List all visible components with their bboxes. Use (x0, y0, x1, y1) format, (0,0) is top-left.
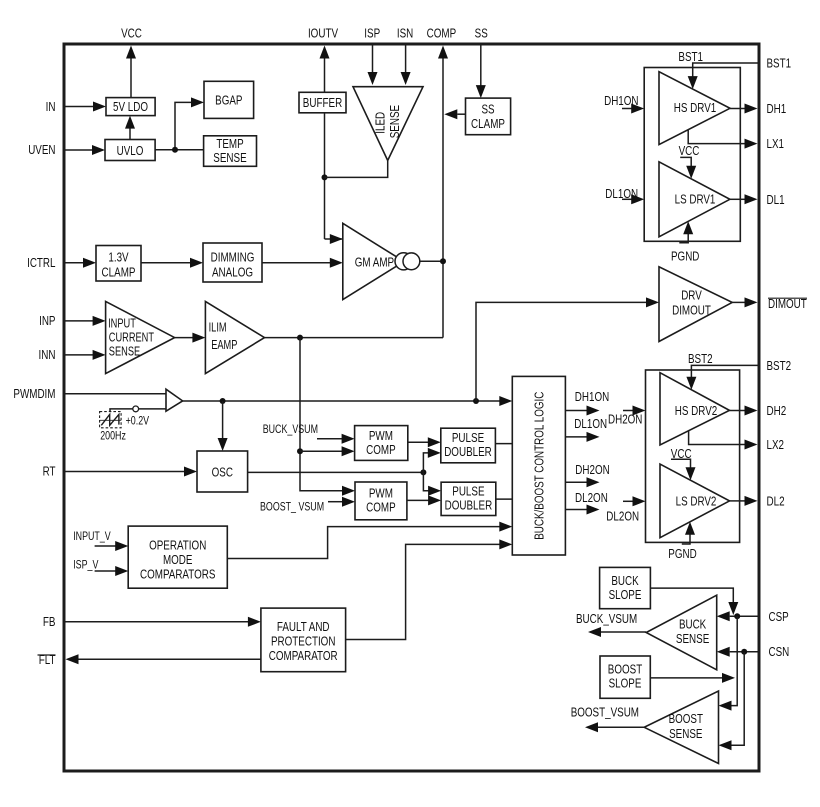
node OSC output junction (420, 469, 426, 475)
svg-text:IN: IN (46, 99, 56, 114)
svg-text:FLT: FLT (39, 652, 56, 667)
wire node to OSC (218, 401, 228, 451)
wire RT to OSC (66, 467, 198, 477)
svg-text:OSC: OSC (212, 464, 234, 479)
wire BOOST_VSUM to boost PWM COMP (328, 497, 355, 507)
pin ISP label (364, 26, 380, 41)
wire UVLO output to temp sense and bgap (155, 97, 204, 149)
svg-text:BOOST_VSUM: BOOST_VSUM (571, 704, 639, 719)
svg-text:BUCK: BUCK (679, 616, 706, 631)
pin COMP label (427, 26, 457, 41)
node VSUM junction (297, 448, 303, 454)
wire PWMDIM pin to comparator (66, 393, 167, 395)
amp BUCK SENSE (646, 595, 717, 670)
svg-text:PULSE: PULSE (452, 430, 484, 445)
wire DIMMING ANALOG to GM AMP (262, 258, 343, 268)
block FAULT AND PROTECTION COMPARATOR (261, 608, 346, 672)
label +0.2V (126, 414, 150, 428)
wire ISP pin to ILED SENSE (368, 46, 378, 86)
wire GM AMP output to COMP line (420, 260, 443, 262)
wire ISP_V to operation mode comparators (95, 566, 129, 576)
pin FLT label (38, 652, 56, 667)
svg-text:ISP_V: ISP_V (73, 557, 98, 571)
svg-text:IOUTV: IOUTV (308, 26, 338, 41)
label 200Hz (100, 429, 126, 443)
node ILIM output junction (297, 335, 303, 341)
wire ILIM EAMP output to COMP line (265, 337, 444, 339)
svg-text:PWM: PWM (369, 428, 393, 443)
wire 1.3V CLAMP to DIMMING ANALOG (141, 258, 203, 268)
amp LS DRV2 (660, 464, 730, 538)
svg-text:INPUT_V: INPUT_V (73, 529, 111, 543)
svg-text:OPERATION: OPERATION (149, 538, 206, 553)
label VCC driver 1 (679, 143, 700, 158)
label BUCK_VSUM output (576, 611, 637, 626)
wire fault comparator to FLT pin (66, 654, 261, 664)
node sawtooth circle (133, 406, 139, 412)
wire BST1 pin to HS DRV1 (688, 63, 758, 89)
label PGND driver 2 (668, 546, 696, 561)
block BGAP (204, 81, 254, 118)
svg-text:SS: SS (481, 102, 494, 117)
block UVLO (105, 140, 155, 161)
pin ISN label (397, 26, 413, 41)
svg-text:LS DRV2: LS DRV2 (676, 494, 717, 509)
wire SS CLAMP to COMP line (444, 109, 465, 119)
pin DIMOUT label (768, 296, 807, 311)
wire PGND into LS DRV2 (682, 522, 695, 544)
label VCC driver 2 (671, 446, 692, 461)
wire DH2ON into driver 2 (623, 406, 646, 416)
svg-text:BUCK_VSUM: BUCK_VSUM (263, 422, 318, 436)
svg-text:RT: RT (43, 464, 56, 479)
label BOOST_VSUM output (571, 704, 639, 719)
svg-text:BOOST_ VSUM: BOOST_ VSUM (260, 500, 324, 514)
wire DRV DIMOUT to DIMOUT pin (732, 297, 757, 307)
svg-text:DOUBLER: DOUBLER (445, 497, 493, 512)
wire ICTRL to 1.3V CLAMP (66, 258, 97, 268)
wire BOOST SENSE output to BOOST_VSUM (585, 722, 644, 732)
block gate driver 2 box (646, 370, 740, 542)
svg-text:SENSE: SENSE (676, 631, 709, 646)
wire PWMDIM comparator output to control logic (183, 396, 513, 406)
svg-text:DOUBLER: DOUBLER (444, 444, 492, 459)
comparator PWMDIM buffer (166, 389, 183, 411)
wire operation mode comparators to control logic (227, 522, 512, 559)
wire ILED SENSE output to IOUTV line (325, 161, 388, 178)
pin DL1 label (767, 192, 785, 207)
wire DL2 output (730, 496, 758, 506)
wire DH2ON output (565, 477, 599, 487)
wire boost pulse doubler to control logic (496, 498, 513, 500)
wire IOUTV pin line (320, 46, 343, 245)
wire BOOST SLOPE output (650, 673, 735, 683)
wire circle to comparator (139, 408, 166, 410)
node CSP junction (734, 613, 740, 619)
node IOUTV junction (322, 174, 328, 180)
wire OSC output (248, 471, 424, 473)
block boost PWM COMP (355, 482, 407, 520)
svg-text:HS DRV2: HS DRV2 (675, 403, 718, 418)
svg-text:DL2ON: DL2ON (606, 508, 639, 523)
svg-text:BST2: BST2 (767, 358, 792, 373)
wire DL2ON output (565, 505, 599, 515)
svg-text:DRV: DRV (681, 288, 702, 303)
wire node to buck PWM COMP (300, 446, 355, 456)
svg-text:BUCK_VSUM: BUCK_VSUM (576, 611, 637, 626)
svg-text:COMPARATORS: COMPARATORS (140, 567, 215, 582)
svg-text:INN: INN (39, 347, 56, 362)
amp HS DRV2 (660, 373, 730, 445)
wire fault comparator to control logic (346, 539, 513, 639)
wire DL2ON into driver 2 (623, 496, 646, 506)
wire UVLO to 5V LDO (125, 116, 135, 140)
svg-text:DIMOUT: DIMOUT (672, 303, 711, 318)
svg-text:BGAP: BGAP (215, 93, 242, 108)
wire SS pin to SS CLAMP (476, 46, 486, 99)
svg-text:PROTECTION: PROTECTION (271, 634, 336, 649)
svg-text:INP: INP (39, 313, 55, 328)
pin IN label (46, 99, 56, 114)
block DIMMING ANALOG (203, 243, 262, 282)
node PWMDIM line junction at OSC (220, 398, 226, 404)
wire DL1ON into driver 1 (622, 194, 644, 204)
svg-text:DIMMING: DIMMING (211, 250, 255, 265)
amp INPUT CURRENT SENSE (106, 301, 175, 373)
pin DL2 label (767, 493, 785, 508)
svg-text:DH2: DH2 (767, 403, 787, 418)
svg-text:DL1: DL1 (767, 192, 785, 207)
block 5V LDO (106, 98, 155, 116)
svg-text:LX1: LX1 (767, 136, 785, 151)
pin IOUTV label (308, 26, 338, 41)
svg-text:CLAMP: CLAMP (471, 116, 505, 131)
label BUCK_VSUM (263, 422, 318, 436)
svg-text:PWMDIM: PWMDIM (13, 386, 55, 401)
block OSC (197, 451, 248, 492)
wire BUCK_VSUM to buck PWM COMP (317, 434, 355, 444)
wire UVEN to UVLO (66, 145, 106, 155)
amp LS DRV1 (659, 162, 730, 237)
wire PWMDIM node to DRV DIMOUT (476, 297, 659, 401)
svg-text:COMP: COMP (427, 26, 457, 41)
pin UVEN label (28, 142, 55, 157)
svg-text:BST1: BST1 (767, 56, 792, 71)
wire BUCK SENSE output to BUCK_VSUM (588, 627, 646, 637)
svg-text:VCC: VCC (121, 26, 142, 41)
wire IN to 5V LDO (66, 102, 107, 112)
block boost PULSE DOUBLER (441, 482, 496, 515)
label DH1ON driver input (604, 93, 638, 108)
wire VSUM vertical line (300, 338, 355, 496)
wire BUCK SLOPE output (650, 588, 738, 615)
pin LX1 label (767, 136, 785, 151)
svg-text:ILED: ILED (372, 112, 387, 134)
pin DH2 label (767, 403, 787, 418)
svg-text:DL1ON: DL1ON (574, 416, 607, 431)
svg-text:INPUT: INPUT (108, 317, 136, 331)
svg-text:ILIM: ILIM (209, 320, 227, 334)
pin PWMDIM label (13, 386, 55, 401)
svg-text:COMP: COMP (366, 500, 396, 515)
svg-text:DH1ON: DH1ON (575, 389, 609, 404)
svg-text:UVEN: UVEN (28, 142, 55, 157)
label DH1ON output (575, 389, 609, 404)
wire CSP pin to BUCK SENSE (717, 611, 758, 621)
label DH2ON driver input (608, 411, 642, 426)
svg-text:DL2: DL2 (767, 493, 785, 508)
node GM AMP output junction (440, 258, 446, 264)
wire INPUT_V to operation mode comparators (95, 541, 129, 551)
IC boundary box (64, 44, 759, 771)
wire boost PWM COMP to pulse doubler (407, 495, 441, 505)
block buck PWM COMP (355, 426, 408, 461)
block TEMP SENSE (204, 136, 257, 167)
svg-text:CSP: CSP (769, 609, 789, 624)
label BST2 internal (688, 351, 713, 366)
wire buck pulse doubler to control logic (495, 443, 512, 445)
pin LX2 label (767, 437, 785, 452)
svg-text:LX2: LX2 (767, 437, 785, 452)
label DL2ON output (575, 490, 608, 505)
amp ILIM EAMP (205, 301, 264, 373)
block BUCK SLOPE (600, 567, 651, 608)
svg-text:SENSE: SENSE (213, 150, 246, 165)
wire 5V LDO to VCC pin (126, 46, 136, 98)
svg-text:MODE: MODE (163, 552, 193, 567)
svg-text:BST1: BST1 (678, 49, 703, 64)
wire DL1 output (730, 194, 758, 204)
svg-text:TEMP: TEMP (216, 136, 243, 151)
pin INP label (39, 313, 55, 328)
op-amp GM AMP (343, 223, 420, 299)
svg-text:CSN: CSN (769, 644, 790, 659)
wire CSN pin to BUCK SENSE (717, 647, 758, 657)
svg-text:BUCK: BUCK (611, 573, 638, 588)
svg-text:SENSE: SENSE (387, 105, 402, 138)
node CSN junction (741, 649, 747, 655)
wire LX2 output (689, 431, 758, 450)
svg-text:+0.2V: +0.2V (126, 414, 150, 428)
pin BST2 label (767, 358, 792, 373)
block buck PULSE DOUBLER (441, 428, 496, 463)
label DL2ON driver input (606, 508, 639, 523)
svg-text:BUFFER: BUFFER (303, 95, 342, 110)
svg-text:SENSE: SENSE (669, 726, 702, 741)
wire DH1ON output (565, 406, 599, 416)
svg-text:ISN: ISN (397, 26, 413, 41)
svg-text:PWM: PWM (369, 486, 393, 501)
pin FB label (43, 614, 56, 629)
block 1.3V CLAMP (96, 246, 141, 282)
pin BST1 label (767, 56, 792, 71)
wire VCC into LS DRV2 (671, 459, 696, 480)
svg-text:BOOST: BOOST (608, 662, 642, 677)
svg-text:BUCK/BOOST CONTROL LOGIC: BUCK/BOOST CONTROL LOGIC (531, 391, 546, 539)
svg-text:200Hz: 200Hz (100, 429, 126, 443)
label ISP_V (73, 557, 98, 571)
amp DRV DIMOUT (659, 267, 732, 342)
block OPERATION MODE COMPARATORS (128, 526, 227, 588)
wire FB to fault comparator (66, 617, 261, 627)
svg-text:ICTRL: ICTRL (27, 255, 55, 270)
svg-text:EAMP: EAMP (211, 338, 237, 352)
svg-text:COMPARATOR: COMPARATOR (269, 648, 338, 663)
svg-text:SENSE: SENSE (109, 345, 140, 359)
amp HS DRV1 (659, 72, 730, 145)
label DL1ON output (574, 416, 607, 431)
svg-text:ISP: ISP (364, 26, 380, 41)
wire ISN pin to ILED SENSE (401, 46, 411, 86)
svg-text:LS DRV1: LS DRV1 (675, 192, 716, 207)
svg-text:PGND: PGND (668, 546, 696, 561)
pin SS label (475, 26, 488, 41)
wire PGND into LS DRV1 (679, 221, 693, 243)
pin DH1 label (767, 101, 787, 116)
svg-text:CURRENT: CURRENT (109, 331, 154, 345)
svg-text:SLOPE: SLOPE (609, 587, 642, 602)
svg-text:PULSE: PULSE (452, 483, 484, 498)
svg-text:BST2: BST2 (688, 351, 713, 366)
label DL1ON driver input (605, 186, 638, 201)
pin CSN label (769, 644, 790, 659)
svg-text:GM AMP: GM AMP (355, 254, 394, 269)
svg-text:5V LDO: 5V LDO (113, 99, 148, 114)
wire COMP line (438, 46, 448, 338)
label BST1 internal (678, 49, 703, 64)
node PWMDIM line junction at DRV DIMOUT (473, 398, 479, 404)
block BUFFER (299, 92, 346, 113)
svg-text:DH2ON: DH2ON (575, 462, 609, 477)
amp BOOST SENSE (644, 691, 718, 764)
block BOOST SLOPE (600, 656, 650, 698)
svg-text:1.3V: 1.3V (108, 250, 128, 265)
wire BST2 pin to HS DRV2 (686, 365, 757, 389)
block SS CLAMP (466, 98, 511, 135)
pin ICTRL label (27, 255, 55, 270)
wire OSC branch to buck pulse doubler (423, 448, 440, 473)
svg-text:FB: FB (43, 614, 56, 629)
wire sawtooth to circle (110, 409, 133, 412)
pin VCC label (121, 26, 142, 41)
svg-text:VCC: VCC (679, 143, 700, 158)
wire buck PWM COMP to pulse doubler (408, 437, 441, 447)
svg-text:HS DRV1: HS DRV1 (674, 100, 717, 115)
wire DH2 output (730, 406, 758, 416)
svg-text:DH1: DH1 (767, 101, 787, 116)
label INPUT_V (73, 529, 111, 543)
svg-text:COMP: COMP (366, 442, 396, 457)
wire DL1ON output (565, 432, 599, 442)
wire DH1ON into driver 1 (622, 104, 644, 114)
svg-text:DL2ON: DL2ON (575, 490, 608, 505)
sawtooth source 200Hz (100, 412, 122, 428)
node UVLO output junction (172, 147, 178, 153)
svg-text:PGND: PGND (671, 249, 699, 264)
wire VCC into LS DRV1 (680, 157, 696, 178)
wire input current sense to ILIM EAMP (175, 333, 206, 343)
wire DH1 output (730, 104, 758, 114)
svg-text:CLAMP: CLAMP (102, 265, 136, 280)
svg-text:UVLO: UVLO (117, 143, 144, 158)
wire CSN branch to BOOST SENSE (719, 652, 745, 751)
wire OSC branch to boost pulse doubler (423, 472, 441, 495)
label PGND driver 1 (671, 249, 699, 264)
svg-text:FAULT AND: FAULT AND (277, 619, 330, 634)
wire INP to input current sense (66, 316, 106, 326)
svg-text:ANALOG: ANALOG (212, 265, 253, 280)
pin CSP label (769, 609, 789, 624)
wire INN to input current sense (66, 350, 106, 360)
pin INN label (39, 347, 56, 362)
svg-text:SS: SS (475, 26, 488, 41)
wire CSP branch to BOOST SENSE (719, 616, 738, 710)
svg-text:SLOPE: SLOPE (609, 676, 642, 691)
block BUCK/BOOST CONTROL LOGIC (512, 376, 565, 555)
amp ILED SENSE (353, 87, 423, 161)
pin RT label (43, 464, 56, 479)
label BOOST_ VSUM (260, 500, 324, 514)
svg-text:BOOST: BOOST (669, 711, 703, 726)
block gate driver 1 box (644, 68, 740, 242)
label DH2ON output (575, 462, 609, 477)
wire LX1 output (688, 130, 757, 149)
